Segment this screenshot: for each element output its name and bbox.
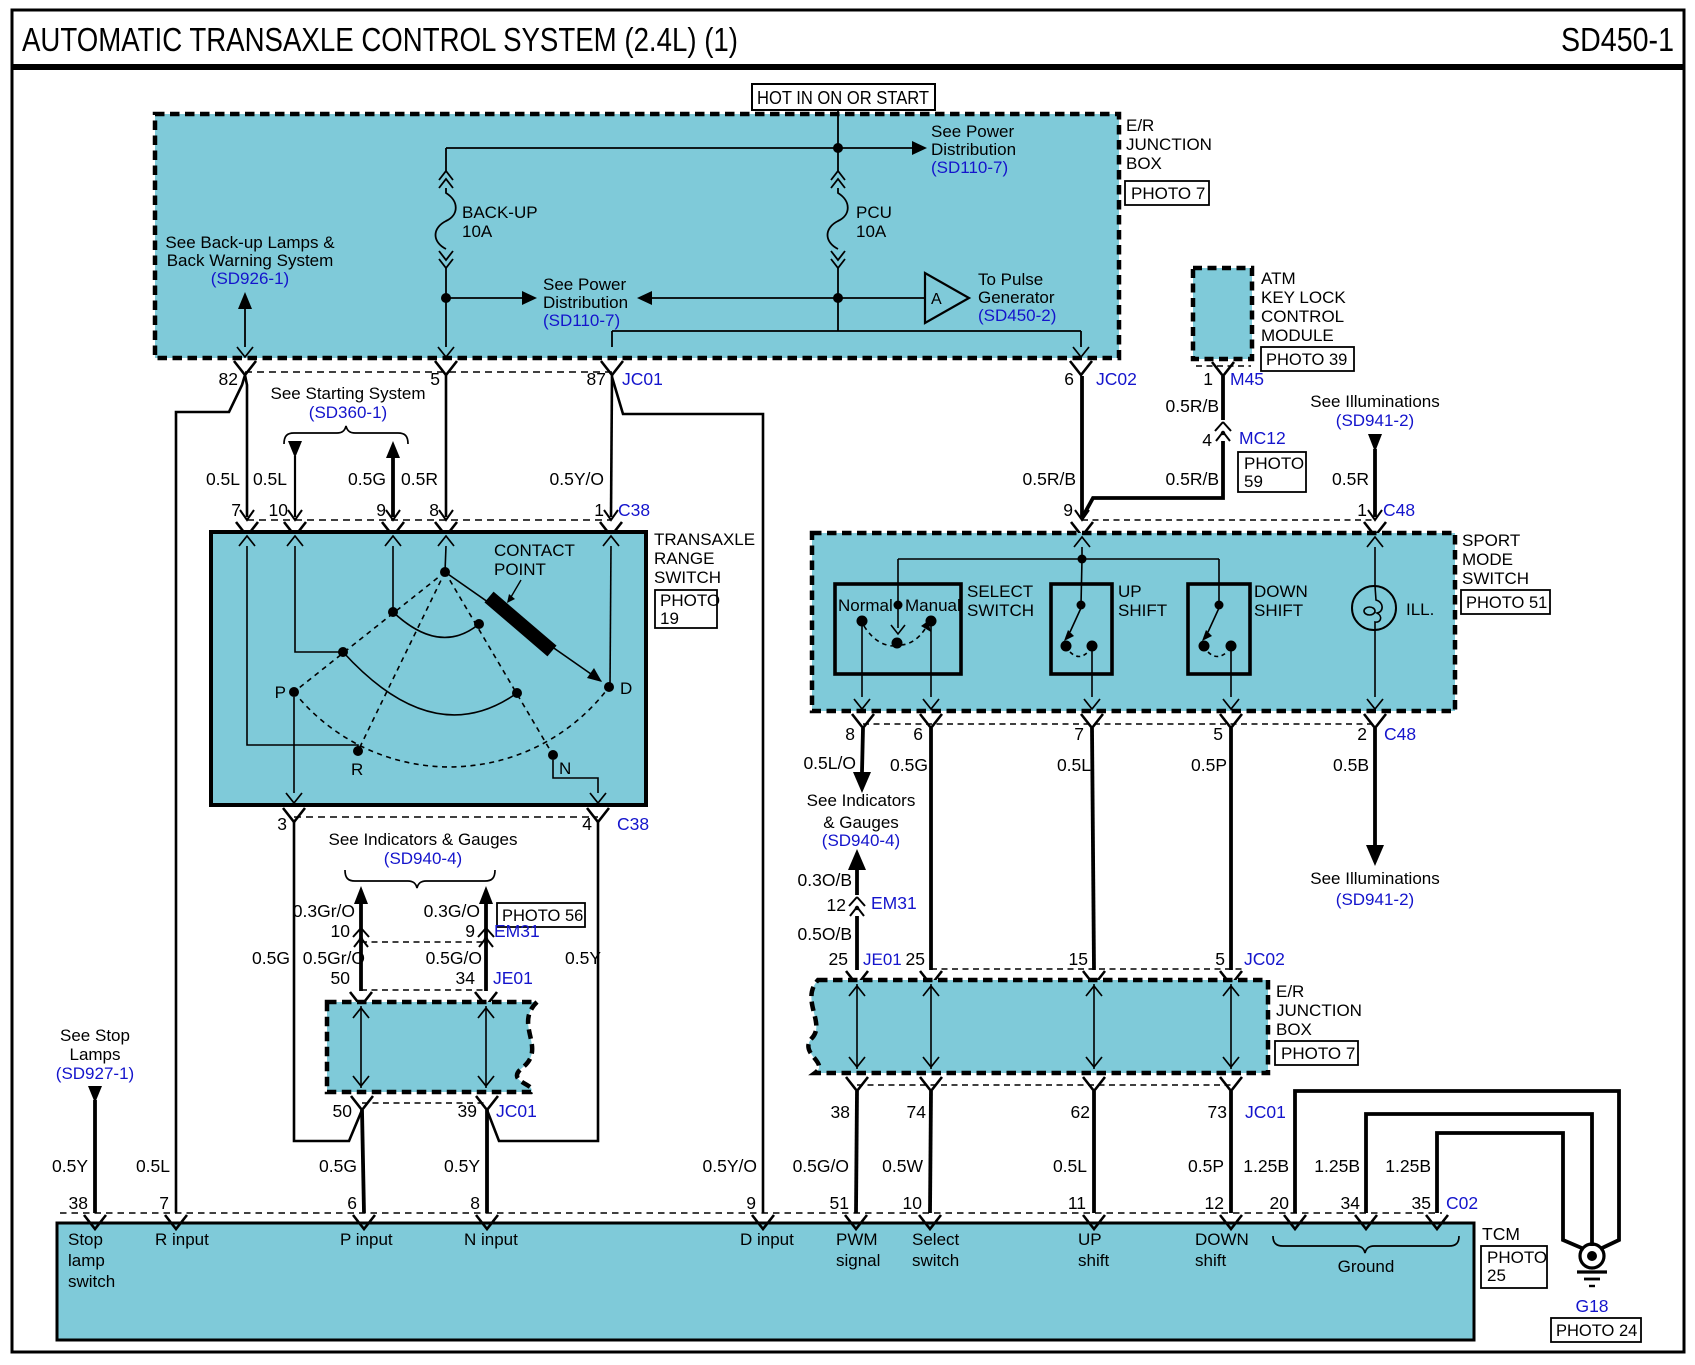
dashed line EM31: [361, 941, 486, 943]
svg-text:0.5G/O: 0.5G/O: [793, 1156, 849, 1176]
wire: supply rail horizontal: [898, 558, 1219, 560]
connector EM31-9: [478, 928, 494, 947]
label: PCU 10A: [856, 203, 892, 241]
svg-text:BOX: BOX: [1126, 154, 1162, 173]
label: To Pulse Generator SD450-2: [978, 270, 1056, 325]
connector C48-1: [1364, 510, 1386, 536]
svg-text:D: D: [620, 679, 632, 698]
svg-text:SWITCH: SWITCH: [967, 601, 1034, 620]
svg-text:3: 3: [277, 814, 287, 834]
svg-text:MODE: MODE: [1462, 550, 1513, 569]
PHOTO 24 box: [1551, 1318, 1641, 1342]
wire: pin8 to pivot: [445, 546, 446, 572]
arrow right to See Power Distribution (mid): [522, 291, 537, 305]
wire: pin10 to middle arc left: [295, 546, 343, 652]
svg-text:BACK-UP: BACK-UP: [462, 203, 538, 222]
node: select common contact: [892, 638, 903, 649]
connector JC01-73: [1220, 1077, 1242, 1091]
svg-text:CONTACT: CONTACT: [494, 541, 575, 560]
svg-text:39: 39: [458, 1101, 477, 1121]
svg-text:See Stop: See Stop: [60, 1026, 130, 1045]
sport mode switch block: [812, 533, 1455, 711]
svg-text:PHOTO: PHOTO: [1244, 454, 1304, 473]
arrowhead on wiper at D: [587, 668, 602, 682]
wiper line pivot to D: [445, 572, 601, 681]
svg-text:shift: shift: [1195, 1251, 1226, 1270]
svg-text:See Illuminations: See Illuminations: [1310, 869, 1439, 888]
svg-text:TRANSAXLE: TRANSAXLE: [654, 530, 755, 549]
wire: PWM branch to EM31: [855, 868, 859, 895]
wire: C48-7 down: [1092, 728, 1094, 970]
svg-text:5: 5: [1213, 724, 1223, 744]
svg-text:See Indicators & Gauges: See Indicators & Gauges: [328, 830, 517, 849]
connector C38-7: [236, 510, 258, 536]
dashed wiper arc up shift: [1070, 652, 1088, 657]
svg-text:4: 4: [1202, 430, 1212, 450]
svg-text:0.5B: 0.5B: [1333, 755, 1369, 775]
svg-text:See Illuminations: See Illuminations: [1310, 392, 1439, 411]
svg-text:JE01: JE01: [863, 950, 902, 969]
connector C48-8: [852, 714, 874, 728]
connector EM31-12: [849, 897, 865, 916]
svg-text:62: 62: [1071, 1102, 1090, 1122]
svg-text:See Power: See Power: [543, 275, 626, 294]
node: inner arc left dot: [388, 607, 398, 617]
node: P contact dot: [289, 687, 299, 697]
svg-text:(SD360-1): (SD360-1): [309, 403, 387, 422]
svg-text:JC02: JC02: [1244, 949, 1285, 969]
svg-text:50: 50: [333, 1101, 353, 1121]
node: supply junction dot: [1078, 555, 1087, 564]
wire: JC01-73 to TCM pin12: [1229, 1091, 1233, 1213]
dashed line JC01 below ER box: [857, 1084, 1231, 1086]
svg-text:ILL.: ILL.: [1406, 600, 1434, 619]
label: See Power Distribution SD110-7 (mid): [543, 275, 628, 330]
node: down shift left contact: [1199, 641, 1210, 652]
wire: C48-8 down to indicators: [862, 728, 863, 772]
svg-text:Generator: Generator: [978, 288, 1055, 307]
svg-text:lamp: lamp: [68, 1251, 105, 1270]
connector C48-6: [920, 714, 942, 728]
wire: EM31-9 branch: [484, 902, 488, 991]
svg-text:2: 2: [1357, 724, 1367, 744]
svg-text:SHIFT: SHIFT: [1254, 601, 1303, 620]
svg-text:C38: C38: [617, 814, 649, 834]
labels JC01 row lower: [831, 1102, 1286, 1122]
connector JC02-5: [1220, 971, 1242, 985]
node: up shift left contact: [1061, 641, 1072, 652]
wire gauge labels below EM31: [252, 948, 601, 968]
exit chevrons at switch bottom: [286, 793, 302, 803]
connector JE01-25: [846, 971, 868, 985]
svg-text:19: 19: [660, 609, 679, 628]
svg-text:Distribution: Distribution: [931, 140, 1016, 159]
svg-text:BOX: BOX: [1276, 1020, 1312, 1039]
svg-text:N: N: [559, 759, 571, 778]
label SELECT SWITCH: [967, 582, 1034, 620]
transaxle range switch block: [211, 532, 646, 805]
node: up shift top contact: [1077, 601, 1086, 610]
svg-text:(SD926-1): (SD926-1): [211, 269, 289, 288]
arrow down: from starting system: [288, 441, 302, 458]
svg-text:35: 35: [1412, 1193, 1431, 1213]
node: mid arc right dot: [512, 688, 522, 698]
svg-text:PWM: PWM: [836, 1230, 878, 1249]
connector C38-4: [587, 808, 609, 822]
node: N contact dot: [548, 750, 558, 760]
svg-text:(SD927-1): (SD927-1): [56, 1064, 134, 1083]
TCM connectors: [84, 1215, 106, 1229]
arrowhead into select common: [891, 625, 905, 634]
wire: lamp down: [1374, 630, 1376, 697]
node: pivot dot: [440, 567, 450, 577]
svg-text:HOT IN ON OR START: HOT IN ON OR START: [757, 88, 929, 108]
wire: 87 down to C38 pin1: [611, 375, 612, 517]
svg-text:Back Warning System: Back Warning System: [167, 251, 334, 270]
wire: pin7 to R contact: [247, 546, 358, 749]
svg-text:JUNCTION: JUNCTION: [1126, 135, 1212, 154]
svg-text:PHOTO 7: PHOTO 7: [1131, 184, 1205, 203]
svg-text:0.5R: 0.5R: [1332, 469, 1369, 489]
label: See Illuminations SD941-2 (top): [1310, 392, 1439, 430]
wire: rail into down shift: [1218, 559, 1220, 605]
dashed wiper arc down shift: [1208, 652, 1227, 657]
svg-text:signal: signal: [836, 1251, 880, 1270]
svg-text:POINT: POINT: [494, 560, 546, 579]
wire: JC02-6 to sport switch pin9: [1080, 376, 1084, 517]
svg-text:0.5L: 0.5L: [136, 1156, 170, 1176]
svg-text:shift: shift: [1078, 1251, 1109, 1270]
svg-text:11: 11: [1068, 1193, 1086, 1213]
labels MC12: [1202, 428, 1285, 450]
connector C38-9: [382, 510, 404, 536]
svg-text:0.5L: 0.5L: [1053, 1156, 1087, 1176]
dashed radial pivot to R: [358, 572, 445, 751]
entry chevrons at switch top: [239, 536, 255, 546]
svg-text:0.5W: 0.5W: [882, 1156, 923, 1176]
svg-text:ATM: ATM: [1261, 269, 1296, 288]
dashed line JC02 above ER box: [931, 968, 1245, 970]
ATM module label: [1261, 269, 1354, 371]
node: dot below PCU fuse: [833, 293, 843, 303]
svg-text:0.3Gr/O: 0.3Gr/O: [293, 901, 355, 921]
node: junction dot at PCU feed: [833, 143, 843, 153]
connector JC01-39: [476, 1096, 498, 1110]
fuse BACK-UP 10A: [436, 171, 456, 268]
wire: EM31-10 branch: [359, 902, 363, 991]
wire: JC01-39 to TCM pin8: [485, 1110, 489, 1213]
wire: starting sys to C38 pin10: [294, 456, 296, 517]
svg-text:1: 1: [1203, 369, 1213, 389]
down shift switch box: [1188, 584, 1250, 674]
wire: 82 to R-input trunk (bend): [176, 375, 245, 1213]
wire: down shift output down: [1230, 651, 1232, 697]
svg-text:82: 82: [219, 369, 238, 389]
connector JE01-34: [475, 992, 497, 1006]
wire: bold to C38 pin9: [391, 456, 395, 517]
svg-text:UP: UP: [1118, 582, 1142, 601]
svg-text:9: 9: [376, 500, 386, 520]
svg-text:JC01: JC01: [496, 1101, 537, 1121]
wire: stop lamp to TCM pin38: [93, 1100, 97, 1213]
wire gauge labels above C38: [206, 469, 604, 489]
wire: pin9 to inner arc left: [392, 546, 394, 611]
wire: up shift output down: [1091, 651, 1093, 697]
wire: BACK-UP fuse to node: [445, 268, 447, 298]
wire: 5 down to C38 pin8: [445, 375, 448, 517]
wire: C48-6 down: [929, 728, 933, 970]
svg-text:See Indicators: See Indicators: [807, 791, 916, 810]
wire: back-up lamps branch down: [244, 309, 246, 347]
svg-text:PHOTO 7: PHOTO 7: [1281, 1044, 1355, 1063]
svg-text:0.5G: 0.5G: [890, 755, 928, 775]
fuse PCU 10A: [828, 171, 848, 268]
svg-text:0.3G/O: 0.3G/O: [424, 901, 480, 921]
svg-text:0.3O/B: 0.3O/B: [798, 870, 852, 890]
svg-text:0.5O/B: 0.5O/B: [798, 924, 852, 944]
svg-text:0.5Y/O: 0.5Y/O: [550, 469, 604, 489]
labels C48 bottom row: [845, 724, 1416, 744]
svg-text:P: P: [275, 683, 286, 702]
svg-text:1: 1: [594, 500, 604, 520]
svg-text:EM31: EM31: [871, 893, 917, 913]
dashed line C48 top: [1082, 519, 1375, 521]
svg-text:(SD110-7): (SD110-7): [543, 311, 620, 330]
wire: fuse5 branch down: [445, 298, 447, 347]
svg-text:DOWN: DOWN: [1195, 1230, 1249, 1249]
svg-text:See Starting System: See Starting System: [271, 384, 426, 403]
node: Manual contact: [926, 616, 937, 627]
svg-text:Select: Select: [912, 1230, 960, 1249]
TCM block: [57, 1223, 1474, 1340]
wire: 82 straight down to C38 pin7: [245, 375, 247, 517]
svg-text:(SD940-4): (SD940-4): [384, 849, 462, 868]
svg-text:34: 34: [456, 968, 476, 988]
wire: JC01-74 to TCM pin10: [930, 1091, 931, 1213]
arrow down to illuminations: [1366, 845, 1384, 866]
dashed line C48 bottom: [863, 723, 1375, 725]
svg-text:(SD941-2): (SD941-2): [1336, 890, 1414, 909]
svg-text:0.5G: 0.5G: [348, 469, 386, 489]
pin labels row C38: [231, 500, 650, 520]
pin labels row below top box: [219, 369, 1265, 389]
node: Normal contact: [857, 616, 868, 627]
wire: Normal contact down: [861, 626, 863, 697]
svg-text:6: 6: [913, 724, 923, 744]
ATM key lock control module block: [1193, 268, 1252, 359]
PHOTO 56 box: [497, 903, 585, 927]
svg-text:Stop: Stop: [68, 1230, 103, 1249]
svg-text:6: 6: [1064, 369, 1074, 389]
svg-text:(SD450-2): (SD450-2): [978, 306, 1056, 325]
svg-text:0.5Y: 0.5Y: [52, 1156, 88, 1176]
svg-text:SWITCH: SWITCH: [1462, 569, 1529, 588]
svg-text:25: 25: [829, 949, 848, 969]
svg-text:38: 38: [69, 1193, 88, 1213]
wire: top horizontal feed: [446, 147, 912, 149]
svg-text:10: 10: [903, 1193, 923, 1213]
svg-text:switch: switch: [68, 1272, 115, 1291]
PHOTO 25 box: [1481, 1246, 1547, 1288]
connector EM31-10: [353, 928, 369, 947]
up shift wiper diagonal with arrow: [1070, 608, 1081, 632]
dashed wiper common to Manual with arrow: [901, 629, 925, 645]
svg-text:G18: G18: [1575, 1296, 1608, 1316]
svg-text:MODULE: MODULE: [1261, 326, 1334, 345]
svg-text:JE01: JE01: [493, 968, 533, 988]
svg-text:DOWN: DOWN: [1254, 582, 1308, 601]
label DOWN SHIFT: [1254, 582, 1308, 620]
svg-text:D input: D input: [740, 1230, 794, 1249]
TCM input labels: [68, 1230, 1249, 1291]
wire: JC01-62 to TCM pin11: [1092, 1091, 1096, 1213]
svg-text:1: 1: [1357, 500, 1367, 520]
svg-text:AUTOMATIC TRANSAXLE CONTROL SY: AUTOMATIC TRANSAXLE CONTROL SYSTEM (2.4L…: [22, 22, 738, 59]
svg-text:25: 25: [906, 949, 925, 969]
arrow up: to starting system: [386, 441, 400, 458]
svg-text:38: 38: [831, 1102, 850, 1122]
svg-text:N input: N input: [464, 1230, 518, 1249]
svg-text:0.5R/B: 0.5R/B: [1166, 396, 1220, 416]
ground wire from TCM pin35: [1437, 1133, 1584, 1249]
node: mid arc left dot: [338, 647, 348, 657]
wire: Manual contact down: [930, 626, 932, 697]
brace under indicators label: [345, 870, 495, 888]
wire: illumination to C48 pin1: [1373, 449, 1377, 517]
pin labels row C38 bottom: [277, 814, 649, 834]
connector JC02-25: [920, 971, 942, 985]
connector C48-7: [1081, 714, 1103, 728]
label: See Indicators & Gauges SD940-4 (left): [328, 830, 517, 868]
svg-text:9: 9: [465, 921, 475, 941]
connector JE01-50: [350, 992, 372, 1006]
svg-text:59: 59: [1244, 472, 1263, 491]
node: down shift top contact: [1215, 601, 1224, 610]
wire: C48-5 down: [1229, 728, 1233, 970]
svg-text:C48: C48: [1384, 724, 1416, 744]
svg-text:switch: switch: [912, 1251, 959, 1270]
svg-text:12: 12: [1205, 1193, 1224, 1213]
svg-text:8: 8: [845, 724, 855, 744]
wire: mid horizontal right segment: [652, 297, 838, 299]
wire: PCU fuse to node: [837, 268, 839, 298]
node: down shift right contact: [1226, 641, 1237, 652]
wire: JC01-38 to TCM pin51: [856, 1091, 857, 1213]
wire: rail into up shift: [1081, 559, 1082, 605]
svg-text:(SD941-2): (SD941-2): [1336, 411, 1414, 430]
arrow up from PWM branch: [848, 849, 866, 870]
dashed line JE01: [361, 989, 486, 991]
wire: pin1 to lamp: [1374, 547, 1376, 586]
solid inner arc: [393, 612, 479, 637]
wire: switch pin4 0.5Y down and jog to JC01-39: [487, 822, 598, 1141]
wire: switch pin3 0.5G down and jog to JC01-50: [294, 822, 362, 1141]
arrow up: to back-up lamps: [238, 292, 252, 309]
connector 5 at box exit: [435, 361, 457, 375]
svg-text:KEY LOCK: KEY LOCK: [1261, 288, 1346, 307]
node: inner arc right dot: [474, 619, 484, 629]
wire: M45 to MC12: [1221, 376, 1225, 420]
label: See Power Distribution SD110-7 (top): [931, 122, 1016, 177]
svg-text:EM31: EM31: [494, 921, 540, 941]
svg-text:PCU: PCU: [856, 203, 892, 222]
svg-text:0.5L/O: 0.5L/O: [803, 753, 856, 773]
labels EM31 row: [331, 921, 540, 941]
svg-text:JUNCTION: JUNCTION: [1276, 1001, 1362, 1020]
connector C38-1: [600, 510, 622, 536]
connector C48-5: [1220, 714, 1242, 728]
label: See Starting System SD360-1: [271, 384, 426, 422]
solid middle arc: [343, 652, 517, 715]
labels C48 top row: [1063, 500, 1415, 520]
svg-text:PHOTO: PHOTO: [660, 591, 720, 610]
svg-text:10: 10: [331, 921, 351, 941]
svg-text:1.25B: 1.25B: [1385, 1156, 1431, 1176]
arrow up right EM31 branch: [479, 886, 493, 904]
wire: node down to distribution rail: [837, 298, 839, 331]
lamp ILL: [1352, 586, 1396, 630]
svg-text:12: 12: [827, 895, 846, 915]
node: up shift right contact: [1087, 641, 1098, 652]
svg-text:SHIFT: SHIFT: [1118, 601, 1167, 620]
svg-text:0.5P: 0.5P: [1188, 1156, 1224, 1176]
svg-text:0.5R/B: 0.5R/B: [1023, 469, 1077, 489]
connector dashed line C38 top: [247, 519, 611, 521]
wire: node to A triangle: [838, 297, 925, 299]
svg-text:C02: C02: [1446, 1193, 1478, 1213]
svg-text:CONTROL: CONTROL: [1261, 307, 1344, 326]
E/R junction box (top): [155, 114, 1119, 358]
svg-text:PHOTO 24: PHOTO 24: [1556, 1322, 1637, 1340]
E/R junction box lower-left (torn right edge): [327, 1002, 537, 1092]
connector MC12-4: [1215, 422, 1231, 441]
select switch box: [835, 584, 961, 674]
brace over starting system arrows: [284, 426, 408, 444]
connector 82 at box exit: [234, 361, 256, 375]
svg-text:SPORT: SPORT: [1462, 531, 1520, 550]
arrow up left EM31 branch: [354, 886, 368, 904]
svg-text:To Pulse: To Pulse: [978, 270, 1043, 289]
ground G18 symbol: [1577, 1244, 1607, 1286]
chevron exit 6: [1073, 347, 1089, 357]
connector dashed line C38 bottom: [294, 816, 598, 818]
TCM pin dashed line: [60, 1212, 1442, 1214]
svg-text:C38: C38: [618, 500, 650, 520]
TCM pin number labels: [69, 1193, 1479, 1213]
up shift switch box: [1051, 584, 1112, 674]
svg-text:9: 9: [746, 1193, 756, 1213]
svg-text:(SD940-4): (SD940-4): [822, 831, 900, 850]
svg-text:UP: UP: [1078, 1230, 1102, 1249]
dashed outer arc P R N D: [294, 687, 609, 767]
svg-text:9: 9: [1063, 500, 1073, 520]
svg-text:JC01: JC01: [1245, 1102, 1286, 1122]
svg-text:1.25B: 1.25B: [1314, 1156, 1360, 1176]
svg-text:R: R: [351, 760, 363, 779]
connector JC01-74: [920, 1077, 942, 1091]
label: BACK-UP 10A: [462, 203, 538, 241]
wire through box col 50: [360, 1006, 362, 1088]
svg-text:A: A: [931, 291, 942, 308]
node: D contact dot: [604, 682, 614, 692]
wire: mid horizontal left segment: [446, 297, 522, 299]
connector JC01-38: [846, 1077, 868, 1091]
svg-text:R input: R input: [155, 1230, 209, 1249]
svg-text:4: 4: [582, 814, 592, 834]
svg-text:5: 5: [1215, 949, 1225, 969]
svg-text:15: 15: [1069, 949, 1088, 969]
wire through box col 39: [485, 1006, 487, 1088]
